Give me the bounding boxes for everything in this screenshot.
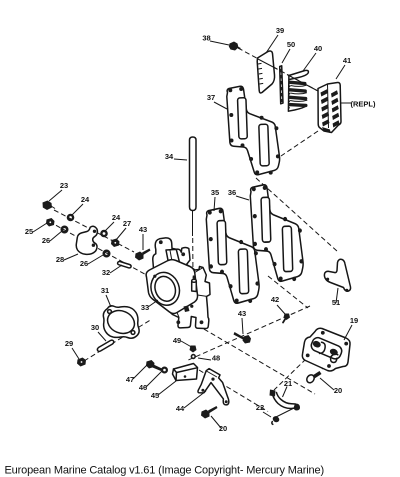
svg-text:40: 40 [314,44,322,53]
svg-text:26: 26 [42,236,50,245]
svg-text:31: 31 [101,286,109,295]
svg-text:43: 43 [238,309,246,318]
svg-text:27: 27 [123,219,131,228]
svg-text:50: 50 [287,40,295,49]
svg-text:26: 26 [80,259,88,268]
svg-text:28: 28 [56,255,64,264]
svg-text:46: 46 [139,383,147,392]
svg-text:43: 43 [139,225,147,234]
svg-text:37: 37 [207,93,215,102]
svg-text:39: 39 [276,26,284,35]
svg-text:47: 47 [126,375,134,384]
svg-text:European Marine Catalog v1.61: European Marine Catalog v1.61 (Image Cop… [5,465,324,477]
svg-text:24: 24 [81,195,90,204]
svg-text:36: 36 [228,188,236,197]
svg-text:48: 48 [212,354,220,363]
svg-text:(REPL): (REPL) [351,100,377,109]
svg-text:30: 30 [91,323,99,332]
svg-text:38: 38 [202,34,210,43]
svg-text:44: 44 [176,404,185,413]
svg-text:29: 29 [65,339,73,348]
svg-text:45: 45 [151,391,159,400]
svg-text:22: 22 [256,403,264,412]
svg-text:24: 24 [112,213,121,222]
svg-text:20: 20 [219,424,227,433]
svg-text:19: 19 [350,316,358,325]
svg-text:49: 49 [173,336,181,345]
svg-text:42: 42 [271,295,279,304]
svg-text:34: 34 [165,152,174,161]
svg-text:25: 25 [25,227,33,236]
svg-text:33: 33 [141,303,149,312]
svg-text:32: 32 [102,268,110,277]
svg-text:35: 35 [211,188,219,197]
svg-text:20: 20 [334,386,342,395]
svg-text:21: 21 [284,379,292,388]
svg-text:41: 41 [343,56,351,65]
svg-text:23: 23 [60,181,68,190]
